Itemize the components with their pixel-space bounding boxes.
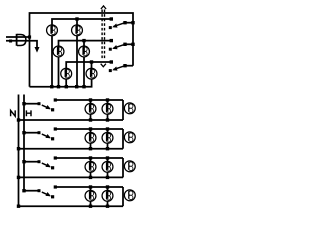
switch S1 switch blade arrowhead	[112, 23, 117, 27]
lamp bank 4 lamp 1	[85, 190, 96, 201]
wire lamp bank 1 lamp 1 top lead	[90, 100, 92, 112]
node junction lamp L4 top	[82, 39, 85, 42]
wire lamp bank 3 lamp 1 bottom lead	[90, 172, 92, 177]
node lamp bank 2 lamp 2 bottom junction	[106, 147, 109, 150]
node junction lamp L6 top	[90, 60, 93, 63]
switch S3 node hinge C	[123, 64, 126, 67]
arrow down at feeder bottom	[101, 64, 106, 67]
wire branch row 2 from rail H	[24, 132, 39, 134]
wire lamp bank 3 top rail	[55, 157, 123, 159]
switch K4 blade	[42, 192, 50, 196]
node bus junction lamp L1	[50, 85, 53, 88]
wire lamp bank 4 lamp 1 top lead	[90, 187, 92, 199]
wire lamp L4 bottom lead	[83, 57, 85, 87]
node lamp bank 4 lamp 2 top junction	[106, 185, 109, 188]
switch K2 node contact B	[51, 137, 54, 140]
switch S1 wire switch output	[125, 22, 133, 24]
switch K1 node output C	[54, 98, 57, 101]
node lamp bank 3 lamp 1 bottom junction	[89, 176, 92, 179]
lamp L5	[61, 68, 72, 79]
node junction upper wire to left riser	[28, 35, 31, 38]
switch K1 node contact A	[38, 102, 41, 105]
wire bottom bus	[30, 79, 92, 87]
node branch junction on rail H row 2	[22, 131, 25, 134]
node lamp bank 1 lamp 1 top junction	[89, 98, 92, 101]
lamp bank 2 lamp 1	[85, 132, 96, 143]
lamp bank 1 end lamp	[124, 103, 135, 114]
node lamp bank 3 lamp 2 top junction	[106, 156, 109, 159]
node bottom rail junction on rail N row 1	[17, 118, 20, 121]
wire outer supply loop (left riser, top run, right riser)	[30, 13, 134, 87]
switch K2 node output C	[54, 127, 57, 130]
switch K1 blade	[42, 105, 50, 109]
switch K3 node contact B	[51, 166, 54, 169]
node lamp bank 1 lamp 2 bottom junction	[106, 118, 109, 121]
label N	[11, 110, 16, 116]
switch K3 blade	[42, 163, 50, 167]
wire lamp bank 1 bottom rail	[19, 119, 124, 121]
wire lamp L4 top lead	[83, 41, 85, 55]
switch S2 node contact B	[109, 48, 112, 51]
switch S1 node contact A	[110, 17, 113, 20]
lamp L4	[79, 46, 90, 57]
switch S1 node junction on right riser	[131, 21, 134, 24]
meter M1 left bar	[16, 34, 18, 46]
switch S2 switch blade arrowhead	[112, 45, 117, 49]
wire lamp L5 bottom lead	[65, 79, 67, 87]
wire branch row 4 from rail H	[24, 190, 39, 192]
wire lamp L6 top lead	[91, 62, 93, 77]
switch K4 node output C	[54, 185, 57, 188]
lamp bank 3 lamp 2	[102, 161, 113, 172]
node bus junction lamp L2	[75, 85, 78, 88]
wire lamp bank 3 bottom rail	[19, 176, 124, 178]
switch S3 node contact A	[110, 60, 113, 63]
switch S3 switch blade arrowhead	[112, 66, 117, 70]
wire lamp bank 4 lamp 2 bottom lead	[107, 201, 109, 206]
wire lamp L3 bottom lead	[58, 57, 60, 87]
lamp L1	[47, 25, 58, 36]
node branch junction on rail H row 4	[22, 189, 25, 192]
node bus junction lamp L5	[65, 85, 68, 88]
lamp L3	[53, 46, 64, 57]
switch S1 node hinge C	[123, 21, 126, 24]
switch K3 blade arrowhead	[45, 163, 50, 167]
dashed feeder line (right)	[104, 10, 106, 60]
node bus junction lamp L3	[57, 85, 60, 88]
switch S3 wire switch blade	[113, 66, 125, 70]
wire lamp bank 3 right edge	[122, 158, 124, 177]
node lamp bank 3 lamp 2 bottom junction	[106, 176, 109, 179]
switch S2 node contact A	[110, 39, 113, 42]
wire lamp bank 2 lamp 2 bottom lead	[107, 143, 109, 149]
meter M1 input wire (upper)	[6, 36, 30, 38]
switch K4 node contact B	[51, 195, 54, 198]
switch S2 node junction on right riser	[131, 43, 134, 46]
node junction lamp L2 top	[75, 17, 78, 20]
meter M1 body (D-shaped case)	[17, 35, 26, 46]
wire lamp bank 4 top rail	[55, 186, 123, 188]
wire lamp bank 2 top rail	[55, 128, 123, 130]
node lamp bank 4 lamp 2 bottom junction	[106, 205, 109, 208]
node lamp bank 2 lamp 1 top junction	[89, 127, 92, 130]
switch K1 blade arrowhead	[45, 105, 50, 109]
node lamp bank 2 lamp 2 top junction	[106, 127, 109, 130]
wire lamp bank 3 lamp 2 bottom lead	[107, 172, 109, 177]
wire lamp bank 2 lamp 1 bottom lead	[90, 143, 92, 149]
switch S2 wire switch output	[125, 43, 133, 45]
wire lamp bank 1 lamp 2 top lead	[107, 100, 109, 112]
wire lamp bank 2 lamp 1 top lead	[90, 129, 92, 141]
node bottom rail junction on rail N row 4	[17, 205, 20, 208]
wire lamp bank 1 right edge	[122, 100, 124, 120]
dashed feeder line (left)	[101, 10, 103, 60]
lamp bank 4 end lamp	[124, 190, 135, 201]
lamp bank 2 end lamp	[124, 132, 135, 143]
wire branch row 3 from rail H	[24, 161, 39, 163]
switch S3 wire switch output	[125, 65, 133, 67]
switch K4 blade arrowhead	[45, 192, 50, 196]
wire lamp bank 3 lamp 2 top lead	[107, 158, 109, 170]
switch S1 node contact B	[109, 26, 112, 29]
arrow up at feeder top	[101, 6, 106, 9]
wire lamp bank 1 lamp 1 bottom lead	[90, 114, 92, 120]
label H	[26, 110, 31, 116]
wire lamp bank 1 top rail	[55, 99, 123, 101]
node bottom rail junction on rail N row 2	[17, 147, 20, 150]
wire rail N (left vertical)	[18, 95, 20, 207]
node lamp bank 1 lamp 1 bottom junction	[89, 118, 92, 121]
wire lamp L1 bottom lead	[51, 36, 53, 87]
node branch junction on rail H row 3	[22, 160, 25, 163]
wire lamp bank 2 bottom rail	[19, 148, 124, 150]
wire branch row 1 from rail H	[24, 103, 39, 105]
wire lamp bank 2 right edge	[122, 129, 124, 149]
wire lamp bank 4 lamp 2 top lead	[107, 187, 109, 199]
wire row 1 feed line	[52, 19, 111, 33]
node terminal dot on lower wire	[9, 40, 12, 43]
node lamp bank 1 lamp 2 top junction	[106, 98, 109, 101]
wire lamp L2 bottom lead	[76, 36, 78, 87]
node lamp bank 3 lamp 1 top junction	[89, 156, 92, 159]
switch K3 node contact A	[38, 160, 41, 163]
switch S2 wire switch blade	[113, 44, 125, 48]
wire rail H (right vertical)	[23, 95, 25, 191]
node branch junction on rail H row 1	[22, 102, 25, 105]
wire row 3 feed line	[66, 62, 111, 77]
wire lamp bank 4 right edge	[122, 187, 124, 206]
meter M1 input wire (lower) with bend down	[6, 41, 37, 48]
switch K4 node contact A	[38, 189, 41, 192]
switch K1 node contact B	[51, 108, 54, 111]
lamp L2	[72, 25, 83, 36]
lamp bank 2 lamp 2	[102, 132, 113, 143]
switch K2 node contact A	[38, 131, 41, 134]
node lamp bank 4 lamp 1 bottom junction	[89, 205, 92, 208]
lamp bank 3 end lamp	[124, 161, 135, 172]
wire lamp bank 4 lamp 1 bottom lead	[90, 201, 92, 206]
switch S3 node contact B	[109, 69, 112, 72]
wire lamp bank 2 lamp 2 top lead	[107, 129, 109, 141]
node lamp bank 4 lamp 1 top junction	[89, 185, 92, 188]
node lamp bank 2 lamp 1 bottom junction	[89, 147, 92, 150]
wire lamp bank 3 lamp 1 top lead	[90, 158, 92, 170]
lamp bank 1 lamp 1	[85, 103, 96, 114]
lamp bank 4 lamp 2	[102, 190, 113, 201]
node bus junction lamp L4	[82, 85, 85, 88]
switch S1 wire switch blade	[113, 23, 125, 27]
wire lamp bank 1 lamp 2 bottom lead	[107, 114, 109, 120]
lamp L6	[86, 68, 97, 79]
wire lamp bank 4 bottom rail	[19, 205, 124, 207]
switch K3 node output C	[54, 156, 57, 159]
switch K2 blade arrowhead	[45, 134, 50, 138]
switch K2 blade	[42, 134, 50, 138]
switch S2 node hinge C	[123, 43, 126, 46]
wire row 2 feed line	[59, 41, 112, 55]
lamp bank 1 lamp 2	[102, 103, 113, 114]
lamp bank 3 lamp 1	[85, 161, 96, 172]
wire down-arrow (to earth/load)	[35, 47, 40, 53]
wire lamp L2 top lead	[76, 19, 78, 33]
node bottom rail junction on rail N row 3	[17, 176, 20, 179]
